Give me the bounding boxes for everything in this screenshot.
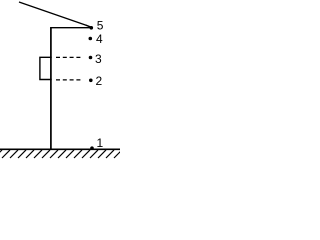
svg-text:3: 3 xyxy=(95,52,102,66)
svg-text:5: 5 xyxy=(97,19,104,33)
svg-text:4: 4 xyxy=(96,32,103,46)
svg-text:2: 2 xyxy=(96,74,103,88)
svg-text:1: 1 xyxy=(97,136,104,150)
